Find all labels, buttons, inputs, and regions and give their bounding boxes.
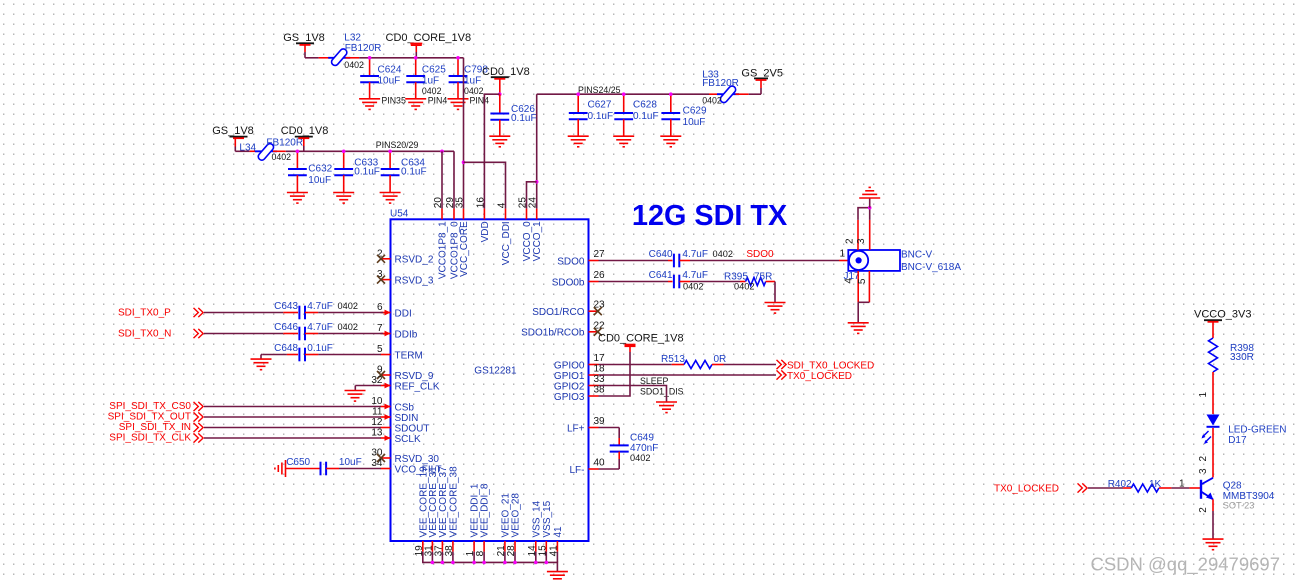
pin 37 VEE_CORE_37 (bottom) [433,466,449,556]
pin 8 VEE_DDI_8 (bottom) [475,483,491,556]
pin 30 RSVD_30 (left) [371,448,439,465]
junction VEE bus pin 38 [451,561,455,565]
pin 40 LF- (right) [570,458,606,476]
junction VEE bus pin 8 [482,561,486,565]
svg-text:330R: 330R [1230,352,1254,363]
svg-text:5: 5 [857,278,868,284]
junction C633 [342,150,346,154]
svg-text:10uF: 10uF [308,175,331,186]
svg-text:4: 4 [844,278,855,284]
svg-text:GS12281: GS12281 [474,366,517,377]
wire SDI_TX0_P to C643 [204,312,298,314]
svg-text:SDO0: SDO0 [557,256,585,267]
port TX0_LOCKED (right) [777,370,853,381]
svg-text:GPIO2: GPIO2 [554,381,585,392]
capacitor C641 4.7uF 0402 [649,270,708,292]
pin 15 VSS_15 (bottom) [537,500,553,556]
wire C650 to VCO_FILT pin 34 [326,468,381,470]
svg-text:C640: C640 [649,249,673,260]
pin 24 VCCO_1 (top) [528,197,544,262]
svg-text:0402: 0402 [630,453,650,463]
net label PINS24/25 [578,85,621,95]
svg-text:0402: 0402 [338,322,358,332]
svg-text:SDO1_DIS: SDO1_DIS [640,387,684,397]
wire L32 to CD0_CORE_1V8 bus [346,57,464,59]
wire bottom VEE bus to ground [423,552,558,572]
svg-text:SDOUT: SDOUT [395,423,430,434]
svg-text:C648: C648 [274,343,298,354]
svg-text:GS_2V5: GS_2V5 [741,68,783,80]
capacitor C624 10uF [360,58,402,99]
pin 41 41 (bottom) [548,526,564,556]
wire GPIO0 to R513 [599,364,685,366]
svg-text:C624: C624 [378,64,402,75]
wire bus down to VCCO pins 24/25 [536,94,538,208]
ground left of C648 [251,355,272,370]
ground PIN35 under C624 [359,95,406,109]
svg-text:GPIO0: GPIO0 [554,360,585,371]
svg-text:0.1uF: 0.1uF [401,167,427,178]
pin 6 DDI (left) [377,302,412,319]
junction VEE bus pin 31 [431,561,435,565]
svg-text:CSDN @qq_29479697: CSDN @qq_29479697 [1090,554,1280,576]
svg-text:LED-GREEN: LED-GREEN [1228,425,1286,436]
port SDI_TX0_P [118,308,203,319]
capacitor C627 0.1uF [569,94,613,136]
svg-text:10uF: 10uF [339,457,362,468]
junction C629 [669,92,673,96]
pin 4 VCC_DDI (top) [497,202,513,265]
svg-text:C627: C627 [588,100,612,111]
wire C640 to BNC pin 1 [680,249,849,261]
svg-text:VCC_CORE: VCC_CORE [459,221,470,277]
svg-text:40: 40 [594,458,606,469]
svg-text:RSVD_2: RSVD_2 [395,255,434,266]
pin 3 RSVD_3 (left) [377,269,434,286]
svg-text:BNC-V: BNC-V [901,250,932,261]
svg-text:R402: R402 [1108,479,1132,490]
svg-text:TERM: TERM [395,350,423,361]
pin 2 BNC (top) [845,208,870,250]
svg-text:LF+: LF+ [567,423,585,434]
wire SPI_SDI_TX_CS0 [204,406,381,408]
svg-text:TX0_LOCKED: TX0_LOCKED [787,371,852,382]
wire R513 to port SDI_TX0_LOCKED [712,364,776,366]
pin 2 Q28 emitter wire [1198,499,1213,539]
svg-text:DDIb: DDIb [395,329,418,340]
wire SPI_SDI_TX_CLK [204,437,381,439]
svg-text:L32: L32 [344,32,361,43]
pin 27 SDO0 (right) [557,249,605,267]
svg-text:12: 12 [371,417,383,428]
pin 13 SCLK (left) [371,428,421,445]
wire C643 to DDI pin 6 [305,312,383,314]
svg-text:VSS_15: VSS_15 [542,500,553,537]
junction C628 [622,92,626,96]
pin 12 SDOUT (left) [371,417,429,434]
svg-text:DDI: DDI [395,308,412,319]
svg-text:PINS20/29: PINS20/29 [376,140,419,150]
svg-text:GS_1V8: GS_1V8 [283,32,325,44]
pin 2 LED wire / pin 3 Q28 collector [1198,428,1213,478]
svg-text:1: 1 [839,249,845,260]
svg-text:PIN4: PIN4 [428,95,448,105]
junction C632 [296,150,300,154]
pin 1 LED wire [1198,372,1213,414]
svg-text:VEE_CORE_38: VEE_CORE_38 [448,466,459,538]
svg-text:0.1uF: 0.1uF [354,167,380,178]
svg-text:GS_1V8: GS_1V8 [212,125,254,137]
wire GS_1V8 to L32 [305,52,330,58]
svg-text:VEE_DDI_8: VEE_DDI_8 [480,483,491,537]
port TX0_LOCKED (bottom) [994,483,1087,494]
pin 26 SDO0b (right) [552,270,605,288]
pin 33 GPIO2 (right) [554,374,605,392]
wire BNC top to ground [869,198,871,208]
port SDI_TX0_N [118,329,203,340]
capacitor C648 0.1uF [274,343,333,361]
svg-text:4.7uF: 4.7uF [307,322,333,333]
capacitor C640 4.7uF 0402 [649,249,733,267]
junction C634 [388,150,392,154]
capacitor C798 1uF 0402 [449,58,489,99]
svg-text:27: 27 [594,249,606,260]
svg-text:10uF: 10uF [378,75,401,86]
svg-text:PIN35: PIN35 [381,95,406,105]
capacitor C643 4.7uF 0402 [274,301,358,319]
resistor R395 75R 0402 [724,271,772,291]
svg-text:C650: C650 [286,457,310,468]
ground under GPIO2 [656,402,677,413]
svg-text:41: 41 [553,526,564,538]
pin 22 SDO1b/RCOb (right) [521,320,605,338]
svg-text:SDI_TX0_N: SDI_TX0_N [118,329,171,340]
junction VEE bus pin 1 [472,561,476,565]
svg-text:17: 17 [594,353,606,364]
title 12G SDI TX [632,200,787,232]
wire bus to VCC_CORE pin 35 [463,58,465,209]
svg-text:0.1uF: 0.1uF [588,111,614,122]
svg-text:SLEEP: SLEEP [640,376,668,386]
svg-text:SDIN: SDIN [395,413,419,424]
pin 7 DDIb (left) [377,323,418,340]
pin 11 SDIN (left) [372,407,418,424]
junction VCCO branch [535,180,539,184]
ground left of C650 [275,460,286,477]
resistor R513 0R [661,354,726,369]
svg-text:4: 4 [497,202,508,208]
wire GS_1V8 to L34 [235,147,258,152]
power port CD0_1V8 (left) [281,125,329,151]
svg-text:26: 26 [594,270,606,281]
ground under C627 [568,136,589,147]
wire GPIO2 SLEEP to ground [599,386,667,403]
svg-text:1: 1 [1198,392,1209,398]
svg-text:C628: C628 [633,100,657,111]
svg-text:VDD: VDD [480,221,491,242]
svg-text:0402: 0402 [338,301,358,311]
port SPI_SDI_TX_CLK [109,433,203,444]
pin 19 VEE_CORE_19 (bottom) [414,466,430,556]
svg-text:SPI_SDI_TX_OUT: SPI_SDI_TX_OUT [108,412,191,423]
wire TERM to C648 and ground [261,354,298,356]
svg-text:39: 39 [594,416,606,427]
capacitor C626 0.1uF [490,94,536,136]
pin 20 VCCO1P8_1 (top) [433,197,449,279]
svg-text:CD0_CORE_1V8: CD0_CORE_1V8 [598,333,684,345]
ground under C632 [287,193,308,204]
capacitor C649 470nF 0402 [610,433,659,464]
capacitor C646 4.7uF 0402 [274,322,358,340]
svg-text:4.7uF: 4.7uF [682,249,708,260]
svg-text:3: 3 [856,238,867,244]
port SPI_SDI_TX_IN [119,422,203,433]
ground below BNC [848,323,869,334]
svg-text:4.7uF: 4.7uF [307,301,333,312]
wire SPI_SDI_TX_IN [204,427,381,429]
pin 21 VEEO_21 (bottom) [496,493,512,557]
svg-text:SDI_TX0_P: SDI_TX0_P [118,308,171,319]
svg-text:GPIO1: GPIO1 [554,371,585,382]
junction CD0_1V8 [498,92,502,96]
svg-text:C646: C646 [274,322,298,333]
svg-text:0402: 0402 [713,249,733,259]
junction VCC_CORE branch [462,161,466,165]
svg-text:0402: 0402 [734,282,754,292]
svg-text:SDO0: SDO0 [746,249,774,260]
svg-text:75R: 75R [754,271,772,282]
svg-text:CD0_1V8: CD0_1V8 [281,125,329,137]
svg-text:0R: 0R [714,354,727,365]
svg-text:C641: C641 [649,270,673,281]
capacitor C650 10uF [286,457,362,475]
pin 5 TERM (left) [377,344,423,361]
svg-text:D17: D17 [1228,435,1247,446]
LED D17 LED-GREEN [1202,415,1287,447]
svg-text:1uF: 1uF [422,75,439,86]
watermark CSDN [1090,554,1280,576]
svg-text:C632: C632 [308,164,332,175]
wire C646 to DDIb pin 7 [305,333,383,335]
svg-text:PIN4: PIN4 [470,95,490,105]
svg-text:VCC_DDI: VCC_DDI [501,221,512,265]
svg-text:FB120R: FB120R [702,78,739,89]
pin 38 VEE_CORE_38 (bottom) [444,466,460,556]
wire branch to VCCO_0 pin 25 [527,182,537,209]
wire SDO0b pin26 to C641 [599,281,673,283]
power port CD0_CORE_1V8 (right) [598,333,684,353]
wire C641 to R395 [680,281,746,283]
pin 39 LF+ (right) [567,416,605,434]
svg-text:0402: 0402 [702,95,722,105]
wire GPIO1 to port TX0_LOCKED [599,374,777,376]
junction C798 [456,56,460,60]
svg-text:SPI_SDI_TX_IN: SPI_SDI_TX_IN [119,422,191,433]
svg-text:7: 7 [377,323,383,334]
pin 25 VCCO_0 (top) [518,197,534,262]
svg-text:20: 20 [433,197,444,209]
svg-text:VCCO1P8_1: VCCO1P8_1 [438,221,449,279]
ground under VEE bus [547,572,568,581]
pin 17 GPIO0 (right) [554,353,605,371]
ground under C634 [380,193,401,204]
net label SLEEP [640,376,668,386]
capacitor C634 0.1uF [381,151,427,192]
pin 3 BNC (top) [856,208,870,250]
ground REF_CLK [345,391,366,402]
pin 23 SDO1/RCO (right) [532,300,605,318]
svg-text:0.1uF: 0.1uF [511,113,537,124]
wire R395 to ground [766,282,775,303]
svg-text:GPIO3: GPIO3 [554,392,585,403]
pin 4 BNC (bottom) [844,271,859,323]
svg-text:SDI_TX0_LOCKED: SDI_TX0_LOCKED [787,360,874,371]
capacitor C633 0.1uF [334,151,380,192]
capacitor C629 10uF [661,94,707,136]
svg-text:BNC-V_618A: BNC-V_618A [901,262,961,273]
wire CD0_CORE_1V8 to GPIO3 pin 38 [599,352,631,396]
svg-text:4.7uF: 4.7uF [682,270,708,281]
wire branch to VCC_DDI pin 4 [464,162,506,208]
net label SDO1_DIS [640,387,684,397]
ground under Q28 [1203,539,1224,550]
wire L34 to PINS20/29 bus [273,150,454,152]
wire SPI_SDI_TX_OUT [204,416,381,418]
svg-text:1uF: 1uF [464,75,481,86]
svg-text:10uF: 10uF [683,117,706,128]
svg-text:VCCO_1: VCCO_1 [532,221,543,261]
pin 9 RSVD_9 (left) [377,365,434,382]
power port GS_1V8 (left) [212,125,254,146]
pin 5 BNC (bottom) [857,271,870,302]
junction BNC top ground [868,206,872,210]
svg-text:24: 24 [528,197,539,209]
svg-text:SDO1/RCO: SDO1/RCO [532,307,584,318]
svg-text:LF-: LF- [570,465,585,476]
pin 31 VEE_CORE_31 (bottom) [423,466,439,556]
resistor R402 1K [1108,479,1162,492]
pin 28 VEEO_28 (bottom) [506,493,522,557]
pin 1 VEE_DDI_1 (bottom) [465,483,481,556]
svg-text:SDO0b: SDO0b [552,277,585,288]
wire C649 to LF- [599,452,620,469]
ferrite bead L33 FB120R 0402 [702,70,749,106]
junction VEE bus pin 37 [441,561,445,565]
pin 18 GPIO1 (right) [554,364,605,382]
svg-text:VCCO_3V3: VCCO_3V3 [1194,309,1251,321]
junction pin20 branch [440,150,444,154]
pin 2 RSVD_2 (left) [377,248,434,265]
svg-text:10: 10 [371,396,383,407]
ground under C628 [613,136,634,147]
power port CD0_1V8 (top) [482,66,530,94]
wire LF+ to C649 [599,428,620,446]
op-amp U54 GS12281 body [390,209,589,542]
junction VEE bus pin 21 [503,561,507,565]
junction C624 [368,56,372,60]
resistor R398 330R [1209,338,1255,372]
svg-text:11: 11 [372,407,383,418]
ferrite bead L32 FB120R 0402 [328,32,381,70]
wire REF_CLK to ground [355,386,381,391]
junction VEE bus pin 28 [513,561,517,565]
svg-text:0402: 0402 [272,152,292,162]
junction C625 / CD0_CORE_1V8 [414,56,418,60]
svg-text:FB120R: FB120R [266,137,303,148]
ground PIN4 under C798 [448,95,490,109]
transistor Q28 MMBT3904 SOT-23 [1201,478,1275,511]
capacitor C632 10uF [288,151,333,192]
ground under R395 [765,303,786,314]
ground under C633 [333,193,354,204]
svg-text:5: 5 [377,344,383,355]
pin 10 CSb (left) [371,396,414,413]
svg-text:35: 35 [455,197,466,209]
svg-text:34: 34 [371,458,383,469]
svg-text:32: 32 [371,375,383,386]
wire R402 to Q28 base [1159,479,1201,490]
ferrite bead L34 FB120R 0402 [239,137,303,162]
svg-text:3: 3 [1198,468,1209,474]
power port GS_2V5 [741,68,783,95]
svg-text:C643: C643 [274,301,298,312]
svg-text:CSb: CSb [395,402,415,413]
pin 16 VDD (top) [475,197,491,243]
svg-text:C625: C625 [422,64,446,75]
ground under C626 [489,136,510,147]
junction C627 [576,92,580,96]
capacitor C628 0.1uF [614,94,658,136]
svg-text:RSVD_3: RSVD_3 [395,275,434,286]
ground above BNC [859,187,880,198]
wire bus to VCCO1P8_1 pin 20 [441,151,443,208]
svg-text:SCLK: SCLK [395,434,421,445]
svg-text:1: 1 [1179,479,1185,490]
pin 29 VCCO1P8_0 (top) [445,197,461,279]
power port CD0_CORE_1V8 (top) [386,32,472,58]
svg-text:VSS_14: VSS_14 [531,500,542,537]
svg-text:2: 2 [1198,456,1209,462]
power port VCCO_3V3 [1194,309,1251,339]
pin 35 VCC_CORE (top) [455,197,471,277]
net label PINS20/29 [376,140,419,150]
svg-text:2: 2 [1198,507,1209,513]
ground PIN4 under C625 [405,95,447,109]
wire CD0_1V8 to VDD pin 16 [484,94,499,208]
svg-text:VEE_CORE_37: VEE_CORE_37 [438,466,449,538]
svg-text:FB120R: FB120R [345,43,382,54]
svg-text:SOT-23: SOT-23 [1223,500,1255,510]
svg-text:R513: R513 [661,354,685,365]
junction VEE bus pin 14 [534,561,538,565]
wire SDO0 pin27 to C640 [599,260,673,262]
wire TX0_LOCKED to R402 [1088,487,1131,489]
svg-text:0402: 0402 [683,282,703,292]
svg-text:C649: C649 [630,433,654,444]
wire SDI_TX0_N to C646 [204,333,298,335]
wire C648 to TERM pin 5 [305,354,381,356]
svg-text:C629: C629 [683,106,707,117]
port SPI_SDI_TX_OUT [108,412,203,423]
pin 14 VSS_14 (bottom) [527,500,543,556]
wire PINS24/25 bus [537,93,709,95]
capacitor C625 1uF 0402 [406,58,446,99]
svg-text:CD0_CORE_1V8: CD0_CORE_1V8 [386,32,472,44]
svg-text:RSVD_30: RSVD_30 [395,454,440,465]
junction VEE bus pin 15 [545,561,549,565]
svg-text:U54: U54 [390,209,409,220]
svg-text:TX0_LOCKED: TX0_LOCKED [994,484,1059,495]
